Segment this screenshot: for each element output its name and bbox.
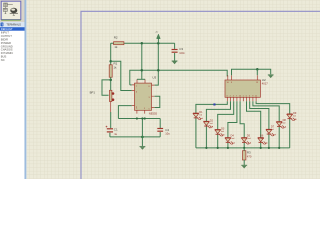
svg-text:470: 470 bbox=[247, 154, 252, 158]
wire 555 TR pin to bottom net bbox=[118, 106, 131, 119]
node junction pin1 bbox=[136, 117, 138, 119]
wire 555 top pins tie bbox=[137, 78, 145, 80]
pin numbers 4017 bottom row bbox=[226, 96, 257, 98]
svg-text:led: led bbox=[199, 115, 202, 117]
wire VCC rail drop to 555 R/VCC pins bbox=[141, 43, 143, 79]
pin 4017 top stubs bbox=[228, 75, 257, 80]
wire ground bus C1-C2 bbox=[110, 136, 160, 138]
svg-text:OUTPUT: OUTPUT bbox=[1, 34, 12, 38]
wire BP1 bypass loop bbox=[102, 80, 111, 95]
LED D8 bbox=[276, 121, 286, 128]
node junction above BP1 bbox=[109, 79, 112, 82]
wire R3 to ground bbox=[243, 148, 245, 165]
LED D7 bbox=[266, 129, 276, 136]
node origin marker bbox=[213, 103, 215, 105]
node junction rail drop on vcc net bbox=[141, 69, 144, 72]
LED D3 bbox=[215, 129, 225, 136]
selected row DEFAULT bbox=[0, 27, 25, 31]
svg-text:TERMINALS: TERMINALS bbox=[6, 23, 21, 27]
wire 555 DC pin joins VCC net bbox=[130, 84, 132, 86]
svg-text:U2: U2 bbox=[262, 78, 266, 82]
svg-text:led: led bbox=[271, 129, 274, 131]
left panel background bbox=[0, 0, 25, 179]
svg-text:D3: D3 bbox=[221, 127, 225, 131]
pushbutton BP1 bbox=[110, 90, 115, 101]
wire 555 gnd down bbox=[141, 119, 143, 147]
wire Q to D5 bbox=[240, 101, 244, 148]
wire junction to 555 TH pin bbox=[111, 61, 132, 90]
wire VCC rail y=43.2 bbox=[111, 42, 175, 44]
pin 555 left stubs bbox=[132, 85, 135, 106]
LED D2 bbox=[204, 121, 214, 128]
LED D4 bbox=[225, 137, 235, 144]
svg-text:NC: NC bbox=[1, 58, 5, 62]
svg-text:GROUND: GROUND bbox=[1, 44, 13, 48]
wire C3 to ground bbox=[174, 53, 176, 61]
svg-text:POWER: POWER bbox=[1, 41, 11, 45]
svg-text:INPUT: INPUT bbox=[1, 31, 9, 35]
svg-text:10u: 10u bbox=[165, 131, 170, 135]
IC U2 body (4017) bbox=[225, 80, 260, 97]
LED D9 bbox=[287, 114, 297, 121]
divider bbox=[25, 0, 26, 179]
wire R2 left lead down to R1 bbox=[110, 43, 112, 65]
svg-text:led: led bbox=[261, 138, 264, 140]
svg-text:led: led bbox=[210, 123, 213, 125]
wire Q to D2 bbox=[206, 101, 230, 148]
list items bbox=[1, 31, 13, 62]
svg-text:C2: C2 bbox=[165, 128, 169, 132]
svg-text:led: led bbox=[248, 138, 251, 140]
svg-text:led: led bbox=[221, 131, 224, 133]
node junction 4017 pin8 drop bbox=[256, 68, 259, 71]
node junction power stem on vcc net bbox=[157, 69, 160, 72]
node junction pin5 bbox=[144, 117, 146, 119]
svg-text:DYNAMIC: DYNAMIC bbox=[1, 51, 13, 55]
svg-text:D9: D9 bbox=[293, 111, 297, 115]
svg-text:D2: D2 bbox=[210, 118, 214, 122]
resistor R1 bbox=[109, 65, 112, 77]
LED D5 bbox=[241, 137, 251, 144]
svg-text:C1: C1 bbox=[114, 128, 118, 132]
node junction rail drop bbox=[141, 42, 144, 45]
pin numbers 4017 top bbox=[227, 82, 260, 84]
wire 4017 gnd net y=69.3 bbox=[232, 69, 271, 75]
svg-text:D8: D8 bbox=[283, 118, 287, 122]
ground 4017 bbox=[268, 74, 274, 76]
wire Q to D6 bbox=[247, 101, 261, 148]
ground R3 bbox=[241, 164, 247, 166]
capacitor C3 bbox=[172, 49, 178, 53]
pin 4017 bottom stubs bbox=[227, 97, 256, 101]
svg-text:D1: D1 bbox=[199, 110, 203, 114]
pin numbers 555 bbox=[136, 86, 151, 111]
wire Q to D8 bbox=[253, 101, 279, 148]
LED D1 bbox=[193, 113, 203, 120]
svg-text:led: led bbox=[293, 115, 296, 117]
svg-text:CHASSIS: CHASSIS bbox=[1, 48, 13, 52]
canvas background grid bbox=[25, 0, 320, 179]
svg-text:C3: C3 bbox=[179, 47, 183, 51]
wire C2 drop bbox=[159, 119, 161, 129]
node junction gnd bus bbox=[141, 136, 144, 139]
green underline of preview bbox=[1, 19, 21, 22]
sheet border bbox=[81, 11, 320, 179]
svg-text:led: led bbox=[283, 123, 286, 125]
wire Q to D1 bbox=[196, 101, 227, 148]
wire 555 output loop pins 3-5 bbox=[155, 96, 160, 107]
resistor R3 bbox=[243, 151, 246, 160]
capacitor C2 bbox=[157, 128, 163, 132]
wire 4017 pin8 stub riser bbox=[256, 69, 258, 75]
wire C1 to gnd bus bbox=[109, 133, 111, 137]
node junction power stem on rail bbox=[157, 42, 160, 45]
wire C2 to gnd bus bbox=[159, 132, 161, 137]
wire Q to D4 bbox=[228, 101, 237, 148]
wire LED cathode bus bbox=[196, 147, 290, 149]
svg-text:R3: R3 bbox=[247, 151, 251, 155]
selector header bar bbox=[0, 22, 25, 27]
pin 555 right stubs bbox=[152, 85, 155, 107]
svg-text:BIDIR: BIDIR bbox=[1, 38, 8, 42]
svg-text:R2: R2 bbox=[114, 36, 118, 40]
node junction R1 top bbox=[109, 60, 112, 63]
wire VCC horizontal net y=70.3 bbox=[130, 70, 227, 85]
svg-text:D7: D7 bbox=[271, 125, 275, 129]
node junction gnd riser bbox=[141, 117, 143, 119]
pin lead BP1 to C1 bbox=[110, 102, 112, 113]
svg-text:BUS: BUS bbox=[1, 55, 7, 59]
wire R1 bottom to button BP1 bbox=[110, 77, 112, 90]
node bus junctions bbox=[205, 147, 280, 149]
svg-text:led: led bbox=[232, 138, 235, 140]
power terminal VCC arrow bbox=[157, 34, 161, 43]
wire 555 bottom net y=118.5 bbox=[118, 118, 160, 120]
capacitor C1 bbox=[106, 126, 113, 133]
wire Q to D3 bbox=[218, 101, 234, 148]
pin 555 bottom stubs bbox=[137, 110, 145, 113]
svg-text:D5: D5 bbox=[247, 133, 251, 137]
svg-text:BP1: BP1 bbox=[90, 90, 96, 94]
preview mini-schematic bbox=[3, 3, 13, 14]
svg-text:?: ? bbox=[1, 23, 3, 27]
wire C3 drop from rail bbox=[174, 43, 176, 49]
svg-text:NE555: NE555 bbox=[149, 112, 158, 116]
svg-text:4017: 4017 bbox=[262, 82, 268, 86]
wire BP1 to C1 bbox=[110, 112, 112, 128]
svg-text:DEFAULT: DEFAULT bbox=[1, 27, 13, 31]
ground C3 bbox=[172, 60, 178, 62]
LED D6 bbox=[258, 137, 268, 144]
svg-text:D4: D4 bbox=[231, 133, 235, 137]
ground main bbox=[140, 146, 146, 148]
svg-text:1u: 1u bbox=[114, 132, 117, 136]
op-amp U3 body (NE555) bbox=[135, 83, 152, 110]
wire Q to D9 bbox=[256, 101, 290, 148]
wire 555 VCC right pin riser bbox=[155, 43, 159, 85]
resistor R2 bbox=[114, 42, 124, 45]
preview window bbox=[1, 1, 21, 19]
svg-text:U3: U3 bbox=[152, 76, 156, 80]
wire Q to D7 bbox=[250, 101, 269, 148]
pin 555 top stubs bbox=[137, 79, 145, 83]
svg-text:100n: 100n bbox=[179, 52, 185, 55]
svg-text:D6: D6 bbox=[260, 134, 264, 138]
